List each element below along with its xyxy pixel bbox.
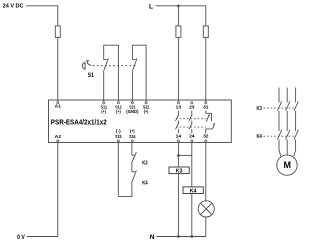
fuse F3	[203, 26, 208, 38]
label K4 contactor	[257, 134, 262, 140]
relay contact 31-32 (NC)	[206, 111, 216, 134]
svg-text:L: L	[149, 3, 153, 10]
svg-text:N: N	[150, 234, 155, 241]
terminal 31	[205, 102, 207, 104]
svg-text:PSR-ESA4/2x1/1x2: PSR-ESA4/2x1/1x2	[51, 117, 107, 126]
wire L branch to fuse F2	[177, 6, 179, 26]
junction 14/jumper	[177, 154, 180, 157]
contact K3 feedback (NC)	[131, 152, 136, 172]
junction N/14	[177, 235, 180, 238]
wire 32 output down	[205, 142, 207, 201]
label S1	[88, 72, 95, 79]
relay contact 23-24	[189, 111, 192, 134]
wire N bus	[157, 236, 206, 238]
fuse F1	[55, 26, 60, 38]
svg-text:K4: K4	[142, 181, 147, 187]
node 24 V DC label	[3, 4, 24, 10]
node L label	[149, 3, 153, 10]
svg-text:K3: K3	[176, 169, 183, 175]
svg-text:24: 24	[189, 134, 195, 140]
svg-text:24 V DC: 24 V DC	[3, 4, 24, 10]
coil K3	[169, 167, 189, 174]
wire hook S11-S12	[104, 45, 119, 102]
svg-text:13: 13	[176, 105, 182, 111]
svg-text:(-): (-)	[116, 129, 121, 134]
wire 14 output down	[177, 142, 179, 237]
svg-text:32: 32	[203, 134, 209, 140]
relay U1 PSR-ESA4 body	[49, 100, 232, 143]
wire jumper 14 to 24	[178, 154, 191, 156]
label PSR-ESA4/2x1/1x2	[51, 117, 107, 126]
junction N/24	[190, 235, 193, 238]
terminal S11	[103, 102, 105, 104]
wire L bus	[156, 6, 206, 26]
terminal 13	[177, 102, 179, 104]
svg-text:(+): (+)	[101, 109, 106, 114]
label K3 feedback	[142, 160, 147, 166]
relay internal link dashed channel 1	[176, 118, 206, 120]
junction L/13	[177, 5, 180, 8]
terminal 24	[191, 140, 193, 142]
svg-text:K3: K3	[142, 160, 147, 166]
motor M1	[277, 155, 297, 175]
svg-text:S33: S33	[115, 134, 122, 140]
contactor K3 main contacts	[277, 88, 298, 132]
wire 24V supply to fuse F1	[26, 6, 58, 26]
contact K4 feedback (NC)	[131, 171, 136, 184]
fuse F2	[176, 26, 181, 38]
terminal A1	[57, 102, 59, 104]
wire 24 output down	[191, 142, 193, 237]
mechanical link dashed K3	[263, 107, 294, 109]
svg-text:(+): (+)	[144, 109, 149, 114]
terminal 14	[177, 140, 179, 142]
relay contact 13-14	[176, 111, 179, 134]
svg-text:S34: S34	[129, 134, 136, 140]
label M	[283, 160, 291, 170]
node 0 V label	[17, 234, 26, 241]
emergency stop S1 actuator	[82, 61, 91, 69]
node N label	[150, 234, 155, 241]
terminal S21	[131, 102, 133, 104]
svg-text:31: 31	[203, 105, 209, 111]
svg-text:A1: A1	[55, 104, 62, 110]
svg-text:K3: K3	[257, 106, 262, 112]
contact S1 channel 1 (NC)	[103, 45, 108, 102]
terminal S33	[117, 140, 119, 142]
svg-text:(+): (+)	[130, 129, 135, 134]
terminal S22	[145, 102, 147, 104]
svg-text:K4: K4	[190, 188, 197, 194]
terminal A2	[57, 140, 59, 142]
wire S34 lead	[131, 142, 133, 155]
svg-text:K4: K4	[257, 134, 262, 140]
wire lamp to N	[205, 217, 207, 237]
label K4 feedback	[142, 181, 147, 187]
svg-text:23: 23	[189, 105, 195, 111]
svg-text:A2: A2	[55, 134, 62, 140]
wire fuse F3 to terminal 31	[205, 37, 207, 102]
terminal 32	[205, 140, 207, 142]
coil K4	[183, 187, 203, 194]
mechanical link dashed K4	[263, 135, 294, 137]
svg-text:14: 14	[176, 134, 182, 140]
terminal S12	[117, 102, 119, 104]
wire A2 to 0V	[27, 142, 58, 237]
wire S33 feedback loop	[118, 142, 132, 197]
contact S1 channel 2 (NC)	[132, 45, 137, 102]
svg-text:S1: S1	[88, 72, 95, 79]
svg-text:(GND): (GND)	[126, 109, 139, 114]
svg-text:M: M	[283, 160, 291, 170]
relay internal link dashed channel 2	[176, 126, 206, 128]
svg-text:(+): (+)	[116, 109, 121, 114]
lamp H1	[198, 201, 214, 217]
terminal S34	[131, 140, 133, 142]
wire fuse F2 to terminal 13	[177, 37, 179, 102]
label K3 contactor	[257, 106, 262, 112]
contactor K4 main contacts	[277, 130, 298, 157]
mechanical link dashed S1	[93, 65, 136, 67]
wire hook S21-S22	[132, 45, 146, 102]
svg-text:0 V: 0 V	[17, 234, 26, 241]
wire fuse F1 to A1	[57, 37, 59, 102]
terminal 23	[191, 102, 193, 104]
